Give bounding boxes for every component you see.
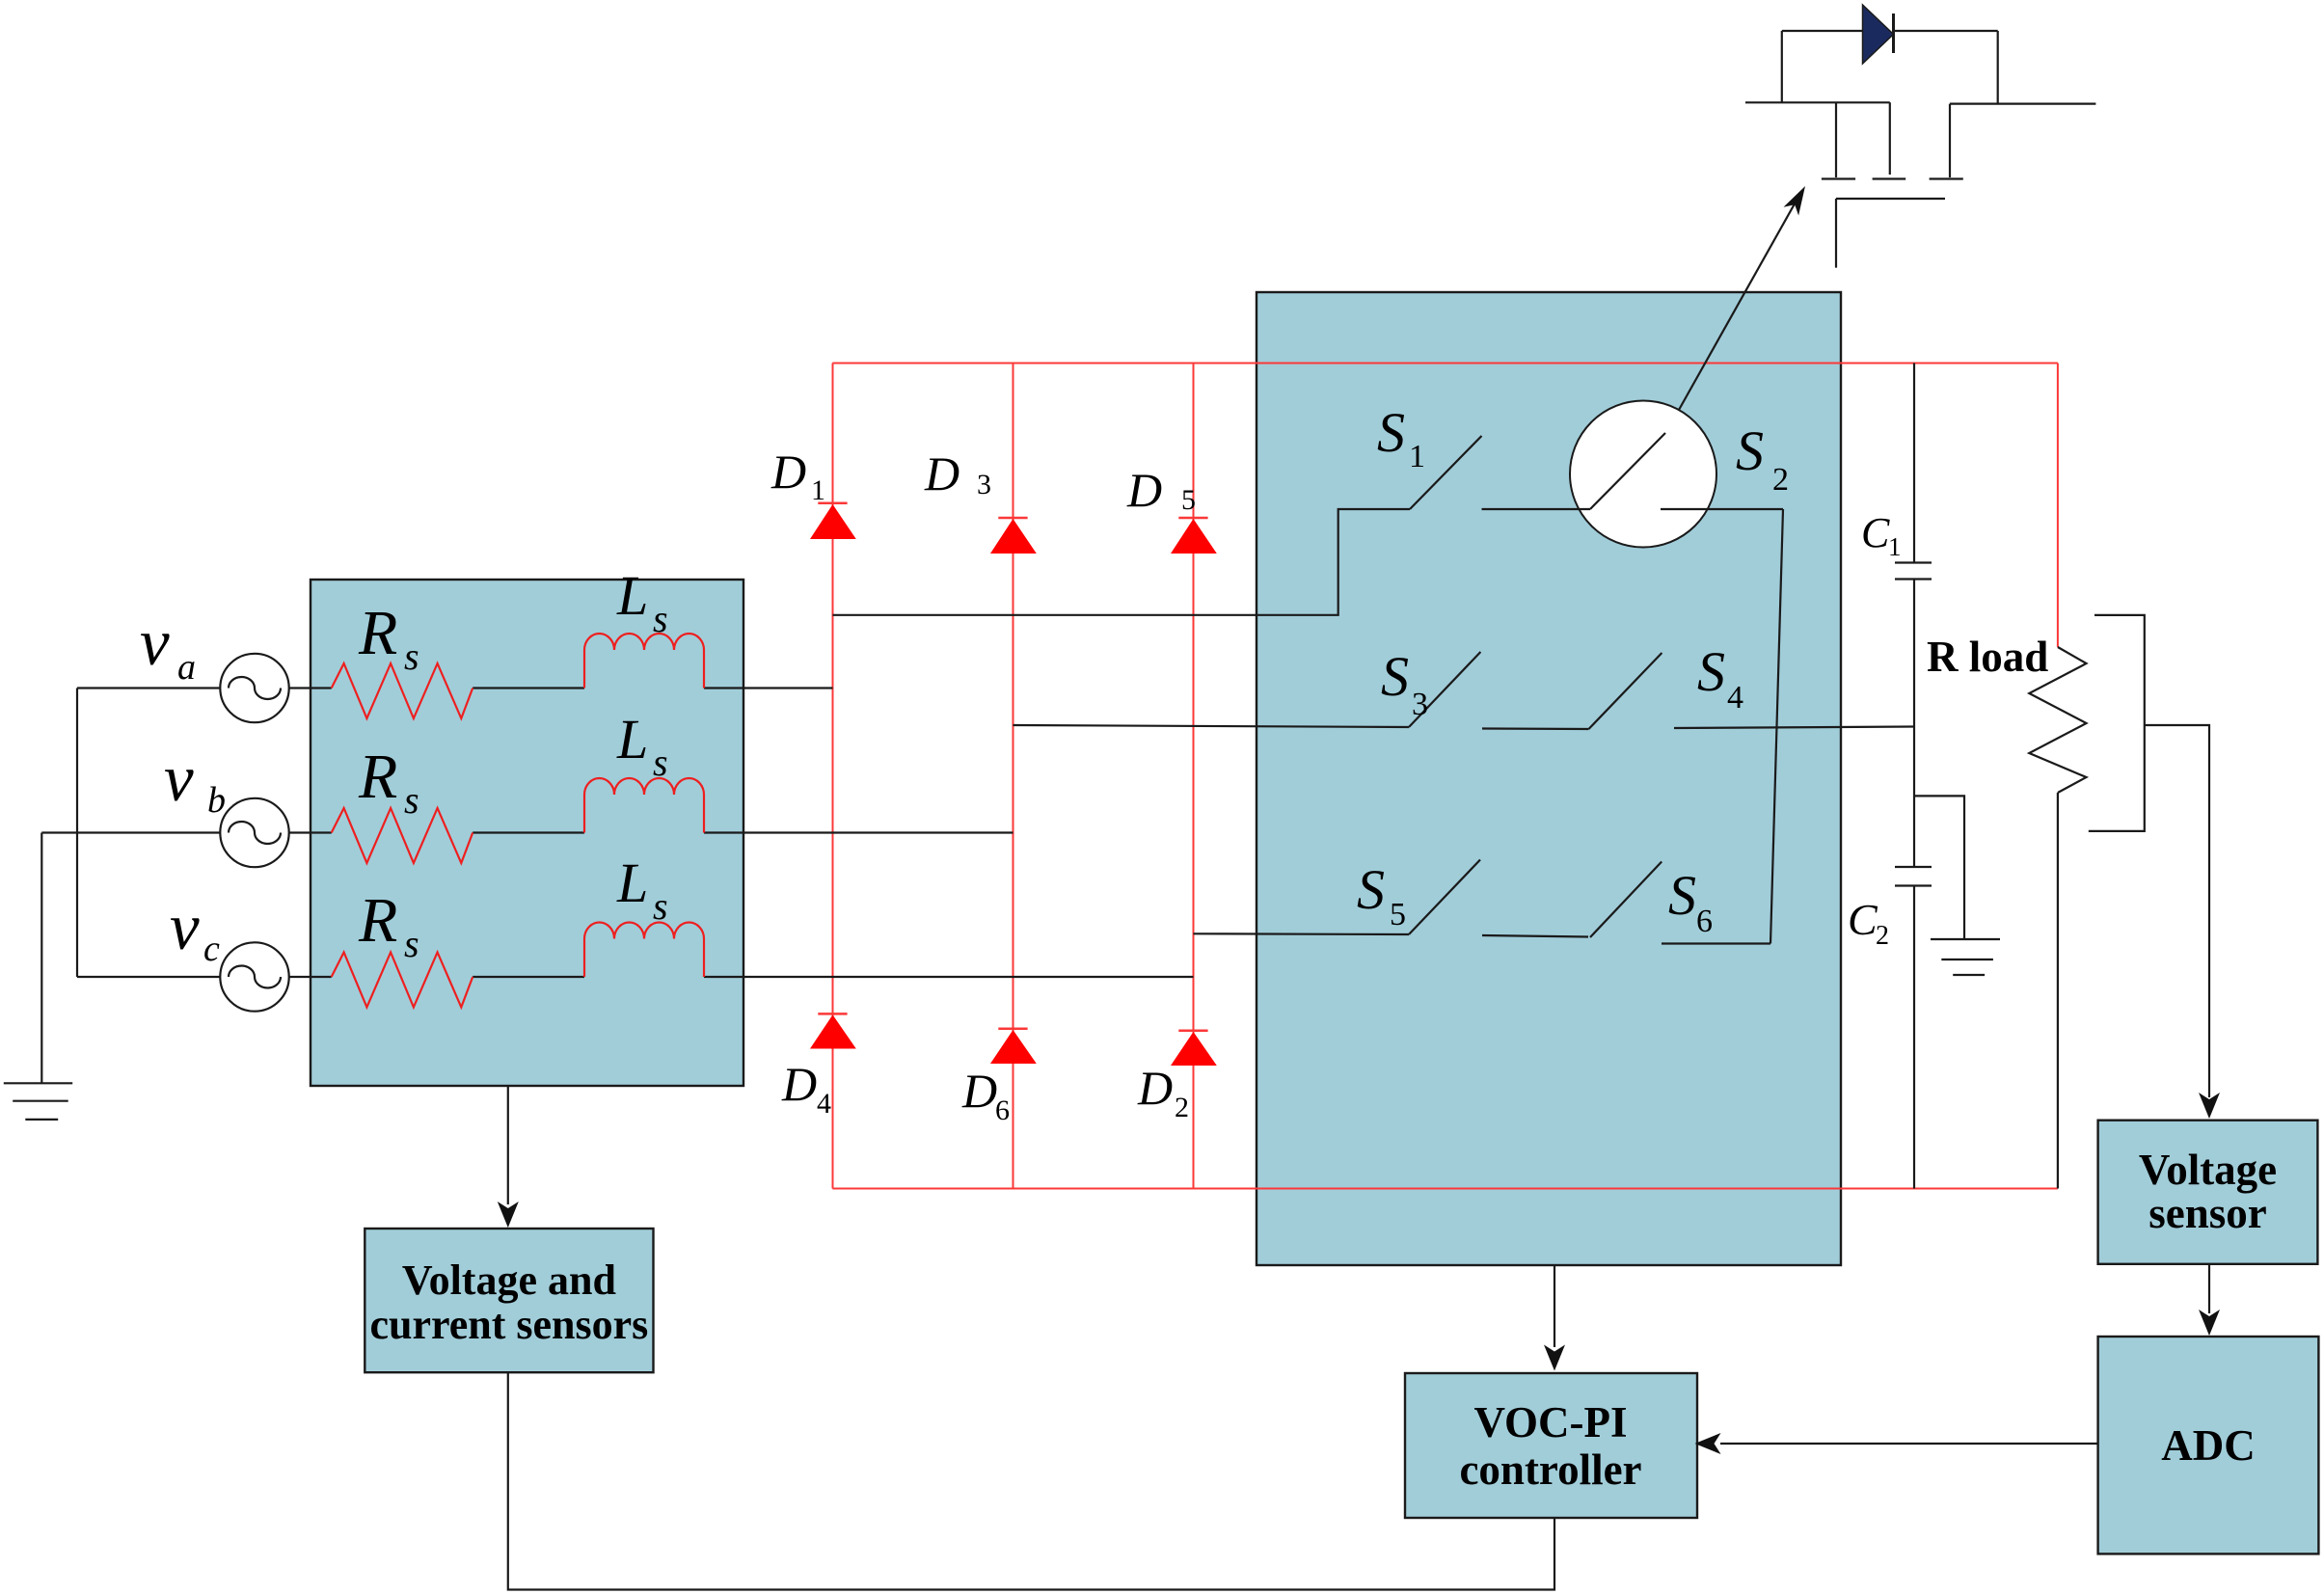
svg-text:1: 1 — [1888, 532, 1902, 561]
svg-text:3: 3 — [977, 469, 991, 500]
svg-text:R: R — [358, 598, 397, 668]
box source impedance (Rs/Ls) — [311, 580, 743, 1086]
svg-text:Voltage: Voltage — [2139, 1146, 2277, 1194]
svg-text:v: v — [170, 890, 200, 963]
svg-text:L: L — [616, 564, 648, 627]
capacitor C1 — [1895, 563, 1932, 580]
diode D6 — [990, 1029, 1037, 1064]
label Rs phase b — [358, 742, 419, 822]
wire capacitor bus middle — [1913, 580, 1915, 868]
label D6 — [961, 1064, 1010, 1126]
wire phase c left — [77, 976, 221, 978]
wire red drop to R load — [2057, 364, 2059, 648]
switch S4 lever — [1589, 653, 1662, 729]
capacitor C2 — [1895, 867, 1932, 886]
wire capacitor bus lower — [1913, 886, 1915, 1189]
wire S5 to S6 — [1482, 935, 1588, 937]
svg-text:s: s — [404, 922, 419, 965]
svg-text:D: D — [924, 446, 959, 500]
svg-text:C: C — [1861, 509, 1890, 556]
svg-text:S: S — [1697, 640, 1725, 703]
wire phase a left — [77, 687, 221, 689]
label Ls phase c — [616, 851, 668, 928]
mosfet channel plates — [1822, 177, 1963, 179]
wire phase b left — [41, 831, 221, 833]
wire bracket to voltage sensor — [2145, 725, 2209, 1097]
wire phase a inside box — [289, 687, 833, 689]
svg-text:6: 6 — [995, 1094, 1010, 1126]
diode cathode bar — [1892, 14, 1895, 53]
svg-text:D: D — [781, 1057, 817, 1111]
label vb — [164, 742, 226, 821]
svg-text:1: 1 — [811, 474, 825, 506]
svg-text:S: S — [1377, 401, 1405, 464]
svg-text:L: L — [616, 851, 648, 914]
label D5 — [1126, 463, 1196, 517]
label D1 — [770, 445, 825, 506]
svg-text:2: 2 — [1175, 1092, 1189, 1123]
diode body MOSFET (navy) — [1863, 5, 1894, 64]
wire ADC to VOC-PI — [1720, 1443, 2098, 1445]
ground neutral — [4, 1083, 72, 1120]
label S1 — [1377, 401, 1425, 474]
svg-text:1: 1 — [1409, 439, 1425, 474]
svg-text:R load: R load — [1927, 633, 2048, 681]
svg-text:S: S — [1736, 419, 1764, 482]
wire sensors to controller feedback — [508, 1372, 1554, 1589]
resistor Rs phase c — [332, 953, 473, 1008]
svg-text:5: 5 — [1181, 484, 1196, 516]
wire S5 input from D5 leg — [1194, 932, 1410, 935]
svg-text:v: v — [140, 606, 170, 679]
box VOC-PI controller — [1405, 1373, 1697, 1518]
resistor R load — [2029, 647, 2086, 793]
switch S3 lever — [1409, 652, 1480, 727]
wire red leg phase b — [1013, 364, 1014, 1189]
wire voltage sensor to ADC — [2208, 1264, 2210, 1313]
svg-text:4: 4 — [1727, 680, 1743, 716]
wire S6 to right bus — [1662, 942, 1770, 944]
wire converter to VOC-PI — [1554, 1265, 1555, 1347]
wire red leg phase a — [832, 364, 834, 1189]
diode D4 — [810, 1013, 856, 1048]
svg-text:b: b — [207, 780, 226, 821]
svg-text:c: c — [203, 929, 220, 969]
switch S5 lever — [1409, 860, 1480, 935]
wire red leg phase c — [1193, 364, 1195, 1189]
resistor Rs phase a — [332, 663, 473, 718]
svg-text:a: a — [177, 647, 196, 688]
label S4 — [1697, 640, 1743, 716]
label C2 — [1848, 895, 1889, 951]
svg-text:S: S — [1381, 645, 1409, 708]
arrowhead into voltage sensor — [2199, 1093, 2220, 1119]
label Ls phase a — [616, 564, 668, 640]
svg-text:6: 6 — [1696, 904, 1713, 939]
label Voltage and current sensors — [369, 1256, 648, 1348]
bubble circle S2 magnifier — [1570, 401, 1716, 548]
svg-text:R: R — [358, 742, 397, 812]
svg-text:R: R — [358, 885, 397, 956]
wire S2 to right bus — [1661, 508, 1783, 510]
switch S2 lever — [1590, 433, 1665, 509]
inductor Ls phase b — [584, 778, 704, 833]
svg-text:s: s — [653, 884, 668, 928]
mosfet detail drain lead — [1745, 102, 1890, 177]
svg-text:D: D — [961, 1064, 997, 1118]
label D2 — [1137, 1061, 1189, 1123]
svg-text:S: S — [1357, 858, 1385, 921]
label vc — [170, 890, 220, 969]
source va — [220, 654, 288, 722]
resistor Rs phase b — [332, 808, 473, 863]
svg-text:sensor: sensor — [2148, 1189, 2267, 1237]
svg-text:2: 2 — [1772, 462, 1789, 498]
svg-text:VOC-PI: VOC-PI — [1473, 1398, 1627, 1446]
label Rs phase c — [358, 885, 419, 965]
wire antiparallel diode loop — [1782, 31, 1998, 104]
svg-text:D: D — [770, 445, 806, 499]
svg-text:controller: controller — [1459, 1445, 1641, 1494]
svg-text:v: v — [164, 742, 194, 815]
svg-text:s: s — [404, 635, 419, 678]
source vb — [220, 798, 288, 867]
diode D2 — [1171, 1031, 1217, 1066]
wire midpoint tap to ground — [1914, 796, 1964, 939]
svg-text:s: s — [404, 778, 419, 822]
svg-text:5: 5 — [1390, 897, 1406, 932]
label Ls phase b — [616, 708, 668, 784]
label S3 — [1381, 645, 1428, 722]
svg-text:3: 3 — [1412, 687, 1428, 722]
box three-phase converter (S1-S6) — [1257, 292, 1841, 1265]
wire bottom red rail — [832, 1188, 2058, 1190]
label va — [140, 606, 196, 688]
svg-text:D: D — [1137, 1061, 1173, 1115]
wire S1 to S2 — [1482, 508, 1591, 510]
label Voltage sensor — [2139, 1146, 2277, 1237]
wire box1 to sensors arrow — [507, 1086, 509, 1204]
svg-text:ADC: ADC — [2161, 1421, 2256, 1470]
wire phase c inside box — [289, 976, 1194, 978]
diode D1 — [810, 503, 856, 539]
label D4 — [781, 1057, 831, 1120]
box Voltage and current sensors — [365, 1229, 653, 1372]
mosfet gate — [1836, 199, 1945, 268]
switch S1 lever — [1410, 436, 1482, 509]
switch S6 lever — [1590, 862, 1662, 938]
wire R load bottom — [2057, 793, 2059, 1189]
label VOC-PI controller — [1459, 1398, 1641, 1494]
diode D3 — [990, 518, 1037, 554]
label S5 — [1357, 858, 1406, 932]
wire capacitor bus upper — [1913, 364, 1915, 563]
svg-text:s: s — [653, 741, 668, 784]
wire S3 to S4 — [1482, 727, 1589, 730]
svg-text:S: S — [1668, 864, 1696, 927]
label Rs phase a — [358, 598, 419, 678]
ground midpoint — [1931, 939, 2000, 975]
svg-text:D: D — [1126, 463, 1162, 517]
source vc — [220, 942, 288, 1011]
label S6 — [1668, 864, 1713, 939]
svg-text:2: 2 — [1876, 921, 1889, 951]
wire right bus S2-S6 — [1770, 509, 1783, 944]
svg-text:C: C — [1848, 895, 1878, 944]
diode D5 — [1171, 518, 1217, 554]
arrow bubble to mosfet — [1679, 199, 1797, 410]
wire S3 input from D3 leg — [1013, 725, 1410, 727]
svg-text:Voltage and: Voltage and — [402, 1256, 616, 1304]
inductor Ls phase c — [584, 923, 704, 978]
label S2 — [1736, 419, 1789, 498]
svg-text:s: s — [653, 597, 668, 640]
node DC bus red rails — [832, 363, 2058, 365]
wire S4 to capacitor bus — [1674, 727, 1914, 729]
box ADC — [2098, 1337, 2319, 1553]
label C1 — [1861, 509, 1902, 561]
svg-text:4: 4 — [817, 1088, 831, 1120]
box Voltage sensor — [2098, 1121, 2318, 1264]
svg-text:L: L — [616, 708, 648, 770]
label D3 — [924, 446, 991, 500]
inductor Ls phase a — [584, 634, 704, 689]
bracket probe across R load — [2089, 615, 2145, 831]
wire neutral to ground — [41, 833, 42, 1084]
mosfet source lead — [1950, 104, 2095, 177]
wire left bus va-vc — [76, 689, 78, 978]
wire phase b inside box — [289, 831, 1013, 833]
svg-text:current sensors: current sensors — [369, 1301, 648, 1348]
wire S1 input from D1 leg — [833, 509, 1411, 615]
